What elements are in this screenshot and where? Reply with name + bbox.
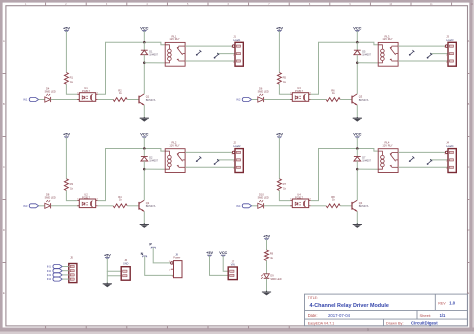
optocoupler U1 PC817 (77, 86, 98, 101)
power flag +5V (R5 rail) (276, 25, 283, 32)
ground (140, 117, 149, 122)
wire U2 pin3 to R4 (98, 205, 114, 207)
junction VCC node (143, 147, 146, 150)
wire R8 to Q4 base (340, 205, 352, 207)
power flag +5V (R7 rail) (276, 132, 283, 139)
wire Q2 emitter to ground (143, 211, 145, 223)
svg-text:BC547A: BC547A (359, 98, 369, 102)
wire to J4 pin2 (430, 159, 448, 161)
LED D8 SMD LED (45, 193, 56, 209)
svg-text:REV: REV (438, 301, 446, 305)
svg-text:R9: R9 (270, 252, 274, 256)
wire U3 pin4 to VCC rail (311, 42, 379, 94)
power flag VCC (353, 132, 361, 139)
diode D5 1N4007 (354, 42, 372, 63)
svg-text:BC547A: BC547A (146, 98, 156, 102)
switch glyph A (409, 50, 414, 56)
wire relay NO to J2 pin1 (185, 151, 232, 153)
wire R9 to D9 (266, 260, 268, 273)
wire relay NC to J2 pin3 (185, 166, 235, 168)
connector J7 (228, 259, 237, 279)
wire U4 pin4 to VCC rail (311, 149, 379, 201)
wire U1 pin4 to VCC rail (98, 42, 166, 94)
wire +5V to R3 (65, 138, 67, 179)
svg-text:SMD LED: SMD LED (45, 90, 56, 93)
svg-text:2017-07-04: 2017-07-04 (328, 313, 351, 318)
pin circle J1.1 (232, 45, 235, 48)
wire VCC down (356, 31, 358, 42)
pin circle P1.1 (171, 262, 174, 265)
wire IN2 to D6 (252, 99, 258, 101)
resistor R6 1k (326, 89, 340, 102)
border ticks bottom (46, 326, 290, 328)
wire relay NC to J1 pin3 (185, 60, 235, 62)
wire Q4 collector to coil node (356, 169, 358, 200)
junction coil node (356, 168, 359, 171)
optocoupler U4 PC817 (290, 192, 311, 207)
diode D2 1N4007 (141, 149, 159, 170)
switch glyph A (196, 156, 201, 162)
wire +5V to J6 pin1 (107, 258, 121, 271)
wire Q1 collector to coil node (143, 63, 145, 94)
svg-text:A: A (3, 39, 5, 43)
wire node to relay coil (357, 168, 378, 170)
junction coil node (143, 168, 146, 171)
svg-text:N: N (141, 252, 144, 256)
svg-text:IN2: IN2 (236, 98, 241, 102)
svg-text:IN1: IN1 (23, 98, 28, 102)
wire node to relay coil (357, 62, 378, 64)
svg-text:R5: R5 (283, 76, 287, 80)
pin circle J3.1 (445, 45, 448, 48)
svg-text:TITLE:: TITLE: (308, 296, 318, 300)
wire R4 to Q2 base (127, 205, 139, 207)
svg-text:+5V: +5V (63, 132, 70, 137)
switch glyph A (196, 50, 201, 56)
svg-text:Drawn By:: Drawn By: (386, 322, 404, 326)
ground (353, 223, 362, 228)
optocoupler U2 PC817 (77, 192, 98, 207)
svg-text:J5: J5 (70, 256, 73, 260)
transistor Q3 BC547A (352, 94, 369, 105)
power flag +5V (R3 rail) (63, 132, 70, 139)
svg-text:SMD LED: SMD LED (45, 197, 56, 200)
relay RL4 12V RLY (378, 141, 398, 173)
wire D4 to U1 pin2 (51, 99, 80, 101)
resistor R9 1k (265, 250, 274, 260)
power flag +5V (R1 rail) (63, 25, 70, 32)
wire ground to J6 pin2 (107, 271, 121, 283)
power flag VCC (140, 132, 148, 139)
LED D9 SMD LED (261, 274, 282, 281)
wire R3 to U2 pin1 (66, 191, 77, 201)
junction VCC node (143, 41, 146, 44)
wire VCC to J7 pin1 (223, 256, 228, 271)
net port P (149, 243, 155, 249)
wire to J2 pin2 (217, 159, 235, 161)
wire Q4 emitter to ground (356, 211, 358, 223)
wire IN1 to D4 (39, 99, 45, 101)
wire R1 to U1 pin1 (66, 84, 77, 94)
input flag IN4 (236, 204, 252, 208)
wire D9 to ground (266, 279, 268, 292)
wire IN2 to J5 (62, 270, 69, 272)
wire node to relay coil (144, 62, 165, 64)
svg-text:IN4: IN4 (47, 277, 52, 281)
svg-text:B: B (468, 102, 470, 106)
connector J4 Load4 (444, 141, 456, 173)
input flag IN1 (header) (47, 265, 63, 269)
LED D10 SMD LED (258, 193, 269, 209)
svg-text:1.0: 1.0 (449, 300, 455, 305)
wire IN3 to D8 (39, 205, 45, 207)
wire Q3 collector to coil node (356, 63, 358, 94)
LED D6 SMD LED (258, 86, 269, 102)
svg-text:A: A (468, 39, 470, 43)
ground (353, 117, 362, 122)
junction coil node (356, 62, 359, 65)
ground (140, 223, 149, 228)
net port N (141, 252, 147, 257)
wire IN1 to J5 (62, 266, 69, 268)
svg-text:PC817: PC817 (82, 89, 90, 93)
wire D8 to U2 pin2 (51, 205, 80, 207)
svg-text:1N4007: 1N4007 (362, 53, 371, 56)
connector J1 Load1 (231, 34, 243, 66)
title block texts (308, 296, 456, 326)
svg-text:Power: Power (173, 257, 180, 260)
svg-text:C: C (3, 165, 5, 169)
transistor Q1 BC547A (139, 94, 156, 105)
resistor R1 1k (64, 73, 73, 85)
input flag IN2 (236, 98, 252, 102)
wire Q1 emitter to ground (143, 105, 145, 117)
optocoupler U3 PC817 (290, 86, 311, 101)
wire D6 to U3 pin2 (264, 99, 293, 101)
svg-text:R7: R7 (283, 182, 287, 186)
svg-text:VCC: VCC (219, 251, 227, 255)
svg-text:12V RLY: 12V RLY (169, 144, 179, 148)
wire to J3 pin2 (430, 53, 448, 55)
svg-text:+5V: +5V (63, 25, 70, 30)
resistor R4 1k (113, 195, 127, 208)
resistor R3 1k (64, 179, 73, 191)
wire R2 to Q1 base (127, 99, 139, 101)
input flag IN2 (header) (47, 269, 63, 273)
svg-text:Load1: Load1 (233, 38, 241, 42)
svg-text:GND: GND (123, 262, 129, 265)
svg-text:Date:: Date: (308, 313, 318, 318)
wire VCC down (143, 138, 145, 149)
transistor Q4 BC547A (352, 200, 369, 211)
input flag IN3 (header) (47, 273, 63, 277)
border ticks left/right (3, 74, 470, 263)
connector P1 Power (169, 253, 182, 278)
svg-text:C: C (467, 165, 469, 169)
wire P to P1 pin1 (153, 248, 170, 263)
ground (J6) (103, 283, 112, 288)
wire VCC down (356, 138, 358, 149)
svg-text:B: B (3, 102, 5, 106)
resistor R2 1k (113, 89, 127, 102)
pin circle J2.1 (232, 151, 235, 154)
resistor R7 1k (277, 179, 286, 191)
resistor R8 1k (326, 195, 340, 208)
input flag IN3 (23, 204, 39, 208)
svg-text:R1: R1 (70, 76, 74, 80)
wire U4 pin3 to R8 (311, 205, 327, 207)
junction VCC node (356, 147, 359, 150)
junction VCC node (356, 41, 359, 44)
svg-text:SMD LED: SMD LED (258, 197, 269, 200)
svg-text:CircuitDigest: CircuitDigest (411, 321, 438, 326)
wire relay NO to J3 pin1 (398, 45, 445, 47)
wire R5 to U3 pin1 (279, 84, 290, 94)
wire +5V to R5 (278, 31, 280, 72)
wire VCC down (143, 31, 145, 42)
svg-text:E: E (3, 291, 5, 295)
wire IN4 to J5 (62, 278, 69, 280)
wire N to P1 pin3 (145, 257, 174, 276)
LED D4 SMD LED (45, 86, 56, 102)
ground (power LED) (262, 291, 271, 296)
relay RL1 12V RLY (165, 34, 185, 66)
input flag IN1 (23, 98, 39, 102)
wire +5V to R7 (278, 138, 280, 179)
svg-text:SMD LED: SMD LED (258, 90, 269, 93)
switch glyph A (409, 156, 414, 162)
svg-text:D: D (467, 228, 469, 232)
relay RL2 12V RLY (165, 141, 185, 173)
wire Q3 emitter to ground (356, 105, 358, 117)
svg-text:4-Channel Relay Driver Module: 4-Channel Relay Driver Module (310, 303, 389, 309)
wire U2 pin4 to VCC rail (98, 149, 166, 201)
power flag VCC (J7) (219, 251, 227, 256)
wire Q2 collector to coil node (143, 169, 145, 200)
border ticks top (46, 3, 452, 6)
svg-text:+5V: +5V (263, 235, 270, 239)
svg-text:VCC: VCC (140, 25, 148, 30)
svg-text:PC817: PC817 (295, 195, 303, 199)
svg-text:12V RLY: 12V RLY (169, 37, 179, 41)
wire to J1 pin2 (217, 53, 235, 55)
svg-text:Load4: Load4 (446, 144, 454, 148)
wire IN3 to J5 (62, 274, 69, 276)
svg-text:BC547A: BC547A (359, 204, 369, 208)
power flag +5V (J7) (206, 251, 213, 256)
svg-text:1N4007: 1N4007 (149, 160, 158, 163)
wire relay NO to J4 pin1 (398, 151, 445, 153)
wire R6 to Q3 base (340, 99, 352, 101)
connector J5 input header (69, 256, 77, 283)
svg-text:12V RLY: 12V RLY (382, 37, 392, 41)
svg-text:1/1: 1/1 (440, 313, 446, 318)
svg-text:VCC: VCC (140, 132, 148, 137)
switch glyph B (214, 159, 219, 165)
switch glyph B (427, 53, 433, 59)
svg-text:+5V: +5V (276, 25, 283, 30)
svg-text:Load2: Load2 (233, 144, 241, 148)
pin circle J4.1 (445, 151, 448, 154)
switch glyph B (214, 53, 219, 59)
svg-text:SMD LED: SMD LED (270, 278, 281, 281)
power flag +5V (J6) (104, 253, 111, 258)
wire +5V to R1 (65, 31, 67, 72)
svg-text:1N4007: 1N4007 (149, 53, 158, 56)
svg-text:D: D (3, 228, 5, 232)
border column numbers (25, 3, 474, 6)
border row letters (3, 39, 470, 295)
diode D7 1N4007 (354, 149, 372, 170)
svg-text:PC817: PC817 (82, 195, 90, 199)
svg-text:PC817: PC817 (295, 89, 303, 93)
svg-text:+5V: +5V (206, 251, 213, 255)
wire +5V to J7 pin2 (210, 256, 229, 276)
title block (305, 294, 468, 326)
transistor Q2 BC547A (139, 200, 156, 211)
wire U3 pin3 to R6 (311, 99, 327, 101)
svg-text:VCC: VCC (353, 25, 361, 30)
svg-text:+5V: +5V (104, 253, 111, 257)
junction coil node (143, 62, 146, 65)
power flag +5V (power LED) (263, 235, 270, 240)
svg-text:BC547A: BC547A (146, 204, 156, 208)
wire +5V to R9 (266, 239, 268, 250)
svg-text:IN4: IN4 (236, 204, 241, 208)
svg-text:R3: R3 (70, 182, 74, 186)
wire R7 to U4 pin1 (279, 191, 290, 201)
diode D1 1N4007 (141, 42, 159, 63)
power flag VCC (353, 25, 361, 32)
svg-text:VCC: VCC (353, 132, 361, 137)
switch glyph B (427, 159, 433, 165)
relay RL3 12V RLY (378, 34, 398, 66)
wire relay NC to J4 pin3 (398, 166, 448, 168)
wire U1 pin3 to R2 (98, 99, 114, 101)
svg-text:1N4007: 1N4007 (362, 160, 371, 163)
svg-text:EasyEDA V4.7.1: EasyEDA V4.7.1 (308, 322, 335, 326)
connector J2 Load2 (231, 141, 243, 173)
wire D10 to U4 pin2 (264, 205, 293, 207)
svg-text:12V RLY: 12V RLY (382, 144, 392, 148)
input flag IN4 (header) (47, 277, 63, 281)
connector J3 Load3 (444, 34, 456, 66)
wire node to relay coil (144, 168, 165, 170)
resistor R5 1k (277, 73, 286, 85)
svg-text:VIN: VIN (231, 263, 235, 266)
svg-text:Sheet:: Sheet: (420, 313, 432, 318)
svg-text:Load3: Load3 (446, 38, 454, 42)
wire relay NO to J1 pin1 (185, 45, 232, 47)
svg-text:IN3: IN3 (23, 204, 28, 208)
wire IN4 to D10 (252, 205, 258, 207)
connector J6 (121, 258, 130, 280)
power flag VCC (140, 25, 148, 32)
svg-text:+5V: +5V (276, 132, 283, 137)
wire relay NC to J3 pin3 (398, 60, 448, 62)
